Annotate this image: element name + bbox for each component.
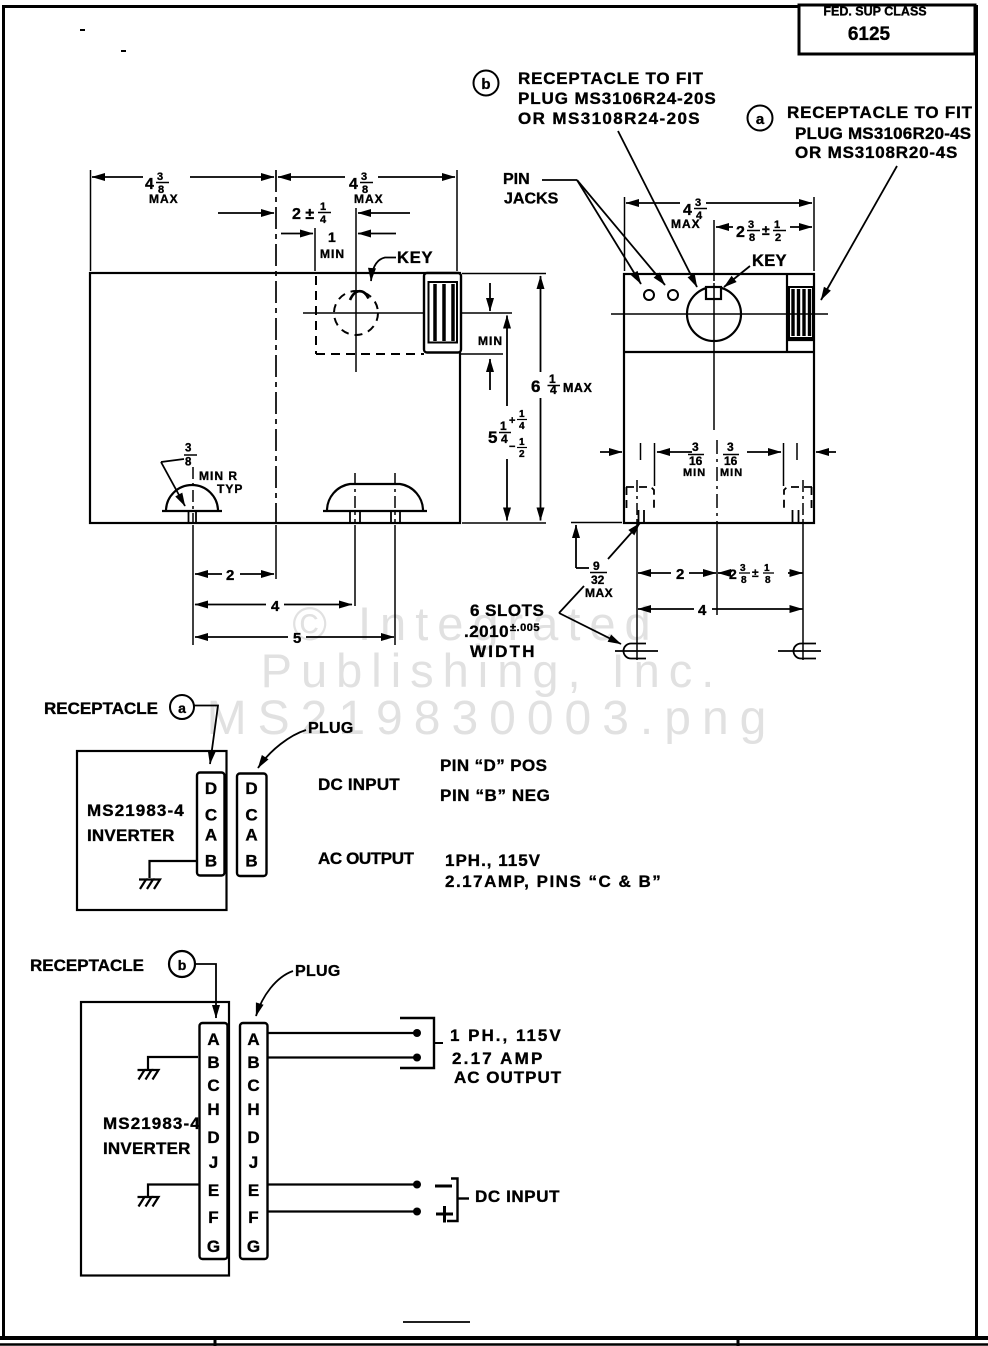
svg-text:F: F: [248, 1208, 258, 1227]
section a: leader from plug label to plug strip: [258, 730, 306, 768]
dim 3/16 MIN left: [600, 440, 706, 479]
section b: plus sign: [436, 1206, 453, 1223]
section b: ac output text: [450, 1026, 563, 1087]
svg-text:16: 16: [689, 454, 703, 468]
svg-text:1: 1: [328, 229, 336, 245]
section a: leader from circle to receptacle strip: [195, 706, 219, 765]
svg-text:2: 2: [775, 232, 781, 244]
svg-text:3: 3: [727, 440, 734, 454]
svg-text:+: +: [509, 415, 515, 427]
svg-text:OR MS3108R20-4S: OR MS3108R20-4S: [795, 143, 958, 162]
svg-text:PLUG: PLUG: [295, 963, 341, 980]
left mounting foot: [162, 485, 222, 523]
svg-text:DC INPUT: DC INPUT: [318, 775, 400, 794]
svg-text:D: D: [207, 1128, 219, 1147]
svg-text:MAX: MAX: [563, 381, 592, 395]
watermark: [207, 597, 778, 745]
svg-text:AC OUTPUT: AC OUTPUT: [454, 1068, 562, 1087]
svg-text:−: −: [509, 441, 515, 453]
bottom dim 4 (front view): [638, 602, 803, 619]
section b: inverter box: [81, 1002, 229, 1276]
svg-text:MIN: MIN: [683, 467, 706, 479]
svg-text:1: 1: [519, 437, 525, 448]
svg-text:JACKS: JACKS: [504, 191, 559, 208]
svg-text:MAX: MAX: [149, 192, 179, 206]
svg-text:MAX: MAX: [354, 192, 384, 206]
svg-text:MS21983-4: MS21983-4: [103, 1114, 201, 1133]
bottom slot hidden lines left: [626, 487, 654, 510]
svg-text:4: 4: [519, 421, 525, 432]
pin jack right: [668, 290, 678, 300]
section b: ac output bracket: [400, 1018, 434, 1068]
svg-text:PLUG MS3106R24-20S: PLUG MS3106R24-20S: [518, 89, 717, 108]
section a: callout circle a: [170, 695, 194, 719]
slot section symbol right: [778, 644, 821, 659]
svg-text:FED. SUP CLASS: FED. SUP CLASS: [823, 5, 926, 19]
dim 3/16 MIN extension lines: [641, 443, 798, 486]
svg-text:3: 3: [157, 171, 163, 183]
svg-text:5: 5: [488, 428, 497, 447]
svg-text:8: 8: [749, 232, 755, 244]
svg-text:32: 32: [591, 573, 605, 587]
svg-text:G: G: [247, 1237, 260, 1256]
section b: callout circle b: [169, 951, 195, 977]
svg-text:DC INPUT: DC INPUT: [475, 1187, 560, 1206]
section a: ground symbol: [139, 880, 160, 890]
svg-text:MS21983-4: MS21983-4: [87, 801, 185, 820]
dim MIN (key to pocket bottom): [478, 283, 503, 390]
svg-text:B: B: [207, 1053, 219, 1072]
section b: wire pin B: [268, 1054, 421, 1062]
svg-text:1: 1: [519, 409, 525, 420]
svg-text:D: D: [245, 779, 257, 798]
svg-text:OR MS3108R24-20S: OR MS3108R24-20S: [518, 109, 701, 128]
svg-text:±: ±: [762, 222, 770, 238]
pin jacks leader lines: [542, 180, 665, 285]
svg-text:4: 4: [145, 176, 154, 193]
svg-text:2 ±: 2 ±: [292, 206, 314, 223]
svg-text:MIN: MIN: [478, 334, 503, 348]
dim 2-3/8 plus-minus 1/2: [716, 219, 812, 244]
section b: leader from circle to receptacle strip: [195, 964, 216, 1018]
slot section symbol left: [615, 644, 658, 659]
dim 6-1/4 MAX: [531, 276, 592, 521]
right mounting foot: [323, 484, 427, 523]
svg-text:a: a: [756, 111, 765, 128]
dim 1 MIN: [281, 229, 396, 261]
svg-text:PIN “D” POS: PIN “D” POS: [440, 756, 547, 775]
svg-text:4: 4: [550, 383, 557, 397]
svg-text:2: 2: [676, 566, 684, 583]
paper specks: [80, 29, 126, 52]
svg-text:PLUG: PLUG: [308, 720, 354, 737]
svg-text:KEY: KEY: [397, 249, 433, 267]
section b: ground symbol upper: [138, 1070, 159, 1080]
svg-text:PIN “B” NEG: PIN “B” NEG: [440, 786, 551, 805]
svg-text:C: C: [245, 806, 257, 825]
section b: leader from plug label to plug strip: [256, 971, 293, 1016]
bottom dim 4: [195, 598, 352, 615]
bottom dim 5: [195, 630, 394, 647]
svg-text:b: b: [481, 76, 490, 93]
section a: ground wire: [150, 861, 199, 878]
section b: ground wire lower: [148, 1185, 199, 1197]
svg-text:4: 4: [271, 598, 280, 615]
svg-text:B: B: [205, 852, 217, 871]
hidden connector pocket (dashed): [316, 276, 503, 354]
svg-text:1 PH., 115V: 1 PH., 115V: [450, 1026, 563, 1045]
svg-text:4: 4: [349, 176, 358, 193]
bottom slot hidden lines right: [784, 487, 812, 510]
right side extension lines: [462, 274, 546, 524]
svg-text:6: 6: [531, 377, 540, 396]
svg-text:D: D: [247, 1128, 259, 1147]
dim 3/16 MIN right: [710, 440, 836, 479]
svg-text:A: A: [207, 1030, 219, 1049]
section b: wire pin E: [268, 1181, 421, 1189]
6 slots label: [464, 523, 640, 661]
section b: receptacle strip: [200, 1023, 228, 1259]
svg-text:E: E: [208, 1181, 219, 1200]
dim 2 plus-minus 1/4: [218, 201, 410, 226]
bottom dim 2-3/8 plus-minus 1/8: [718, 563, 803, 586]
section b: ground symbol lower: [138, 1197, 159, 1207]
svg-text:RECEPTACLE TO FIT: RECEPTACLE TO FIT: [518, 69, 704, 88]
svg-text:H: H: [247, 1100, 259, 1119]
section b: plug strip: [240, 1023, 268, 1259]
svg-text:PLUG MS3106R20-4S: PLUG MS3106R20-4S: [795, 124, 971, 143]
section b: ground wire upper: [148, 1057, 198, 1069]
svg-text:KEY: KEY: [752, 252, 787, 270]
svg-text:E: E: [248, 1181, 259, 1200]
receptacle b side view block: [424, 273, 461, 353]
section a: receptacle strip: [197, 773, 225, 876]
bottom dim 2: [195, 567, 274, 584]
svg-text:b: b: [178, 957, 187, 973]
svg-text:TYP: TYP: [217, 482, 243, 496]
section a: inverter box: [77, 751, 227, 910]
svg-text:1PH., 115V: 1PH., 115V: [445, 851, 541, 870]
svg-text:MAX: MAX: [671, 217, 701, 231]
svg-text:MIN: MIN: [720, 467, 743, 479]
svg-text:2: 2: [226, 567, 234, 584]
svg-text:F: F: [208, 1208, 218, 1227]
svg-text:RECEPTACLE TO FIT: RECEPTACLE TO FIT: [787, 103, 973, 122]
top dimension extension lines: [91, 170, 458, 271]
svg-text:2: 2: [736, 224, 745, 241]
svg-text:H: H: [207, 1100, 219, 1119]
key centerline vertical: [355, 208, 357, 372]
svg-text:WIDTH: WIDTH: [470, 642, 537, 661]
svg-text:PIN: PIN: [503, 171, 530, 188]
svg-text:3: 3: [748, 219, 754, 231]
callout circle a: [748, 106, 773, 131]
svg-text:B: B: [245, 852, 257, 871]
section b: wire pin F: [268, 1208, 421, 1216]
key centerline horizontal: [303, 312, 512, 314]
svg-text:1: 1: [500, 419, 507, 433]
fed sup class box: [799, 5, 975, 55]
svg-text:2: 2: [729, 566, 737, 582]
svg-text:A: A: [205, 826, 217, 845]
svg-text:8: 8: [185, 457, 192, 469]
svg-text:4: 4: [320, 214, 327, 226]
receptacle a key notch: [706, 287, 721, 299]
dim 4-3/8 MAX left: [92, 171, 274, 206]
svg-text:3: 3: [361, 171, 367, 183]
svg-text:2.17 AMP: 2.17 AMP: [452, 1049, 545, 1068]
section b: minus sign: [435, 1185, 452, 1188]
key label (side view): [350, 249, 433, 300]
key label (front view): [724, 252, 787, 287]
svg-text:J: J: [209, 1153, 218, 1172]
svg-text:.2010: .2010: [464, 622, 509, 641]
svg-text:A: A: [247, 1030, 259, 1049]
inverter front view outline: [624, 274, 814, 523]
svg-text:C: C: [247, 1076, 259, 1095]
front view crosshair: [611, 283, 828, 430]
svg-text:INVERTER: INVERTER: [103, 1139, 191, 1158]
bottom dim 2 (front view): [638, 566, 716, 583]
side view vertical centerline: [275, 170, 277, 523]
svg-text:4: 4: [501, 432, 508, 446]
3/8 MIN R TYP callout: [161, 443, 243, 507]
svg-text:5: 5: [293, 630, 301, 647]
svg-text:B: B: [247, 1053, 259, 1072]
svg-text:4: 4: [698, 602, 707, 619]
svg-text:16: 16: [724, 454, 738, 468]
svg-text:1: 1: [774, 219, 780, 231]
svg-text:9: 9: [593, 559, 600, 573]
svg-text:8: 8: [765, 575, 771, 586]
leader from note b to receptacle a circle: [618, 131, 697, 287]
pin jacks label: [503, 171, 559, 208]
section b: inverter label: [103, 1114, 201, 1158]
svg-text:G: G: [207, 1237, 220, 1256]
foot centerlines: [193, 467, 395, 645]
svg-text:C: C: [207, 1076, 219, 1095]
receptacle b front view block: [789, 287, 813, 338]
svg-text:MIN: MIN: [320, 247, 345, 261]
svg-text:1: 1: [320, 201, 326, 213]
bottom slot openings: [639, 510, 799, 523]
svg-text:A: A: [245, 826, 257, 845]
svg-text:2.17AMP, PINS “C & B”: 2.17AMP, PINS “C & B”: [445, 872, 662, 891]
svg-text:3: 3: [185, 443, 191, 455]
svg-text:MAX: MAX: [585, 586, 613, 600]
svg-text:6125: 6125: [848, 24, 891, 45]
receptacle b note text: [518, 69, 717, 128]
svg-text:2: 2: [519, 449, 525, 460]
dim 4-3/8 MAX right: [278, 171, 455, 206]
svg-text:INVERTER: INVERTER: [87, 826, 175, 845]
front view top extension lines: [625, 197, 815, 281]
svg-text:3: 3: [692, 440, 699, 454]
svg-text:±: ±: [752, 566, 759, 580]
svg-text:J: J: [249, 1153, 258, 1172]
slot centerlines: [637, 440, 803, 660]
svg-text:8: 8: [741, 575, 747, 586]
section a: inverter label: [87, 801, 185, 845]
svg-text:a: a: [178, 700, 186, 716]
pin jack left: [644, 290, 654, 300]
svg-text:±.005: ±.005: [510, 622, 540, 634]
dim 5-1/4: [488, 316, 527, 521]
section b: dc input bracket: [447, 1179, 469, 1222]
svg-text:D: D: [205, 779, 217, 798]
svg-text:MIN R: MIN R: [199, 469, 238, 483]
section a: plug strip: [237, 774, 267, 877]
inverter side view outline: [90, 273, 460, 523]
dim 9/32 MAX: [571, 523, 622, 601]
leader from note a to receptacle b block: [821, 166, 897, 300]
svg-text:C: C: [205, 806, 217, 825]
svg-text:6 SLOTS: 6 SLOTS: [470, 601, 544, 620]
svg-text:3: 3: [695, 197, 701, 209]
receptacle a note text: [787, 103, 973, 162]
receptacle a circle: [687, 287, 741, 341]
svg-text:AC OUTPUT: AC OUTPUT: [318, 849, 415, 868]
callout circle b: [474, 71, 499, 96]
section b: wire pin A: [268, 1029, 421, 1037]
dim 4-3/4 MAX: [626, 197, 812, 231]
key hole (dashed circle): [334, 291, 378, 335]
svg-text:RECEPTACLE: RECEPTACLE: [30, 956, 144, 975]
svg-text:RECEPTACLE: RECEPTACLE: [44, 699, 158, 718]
